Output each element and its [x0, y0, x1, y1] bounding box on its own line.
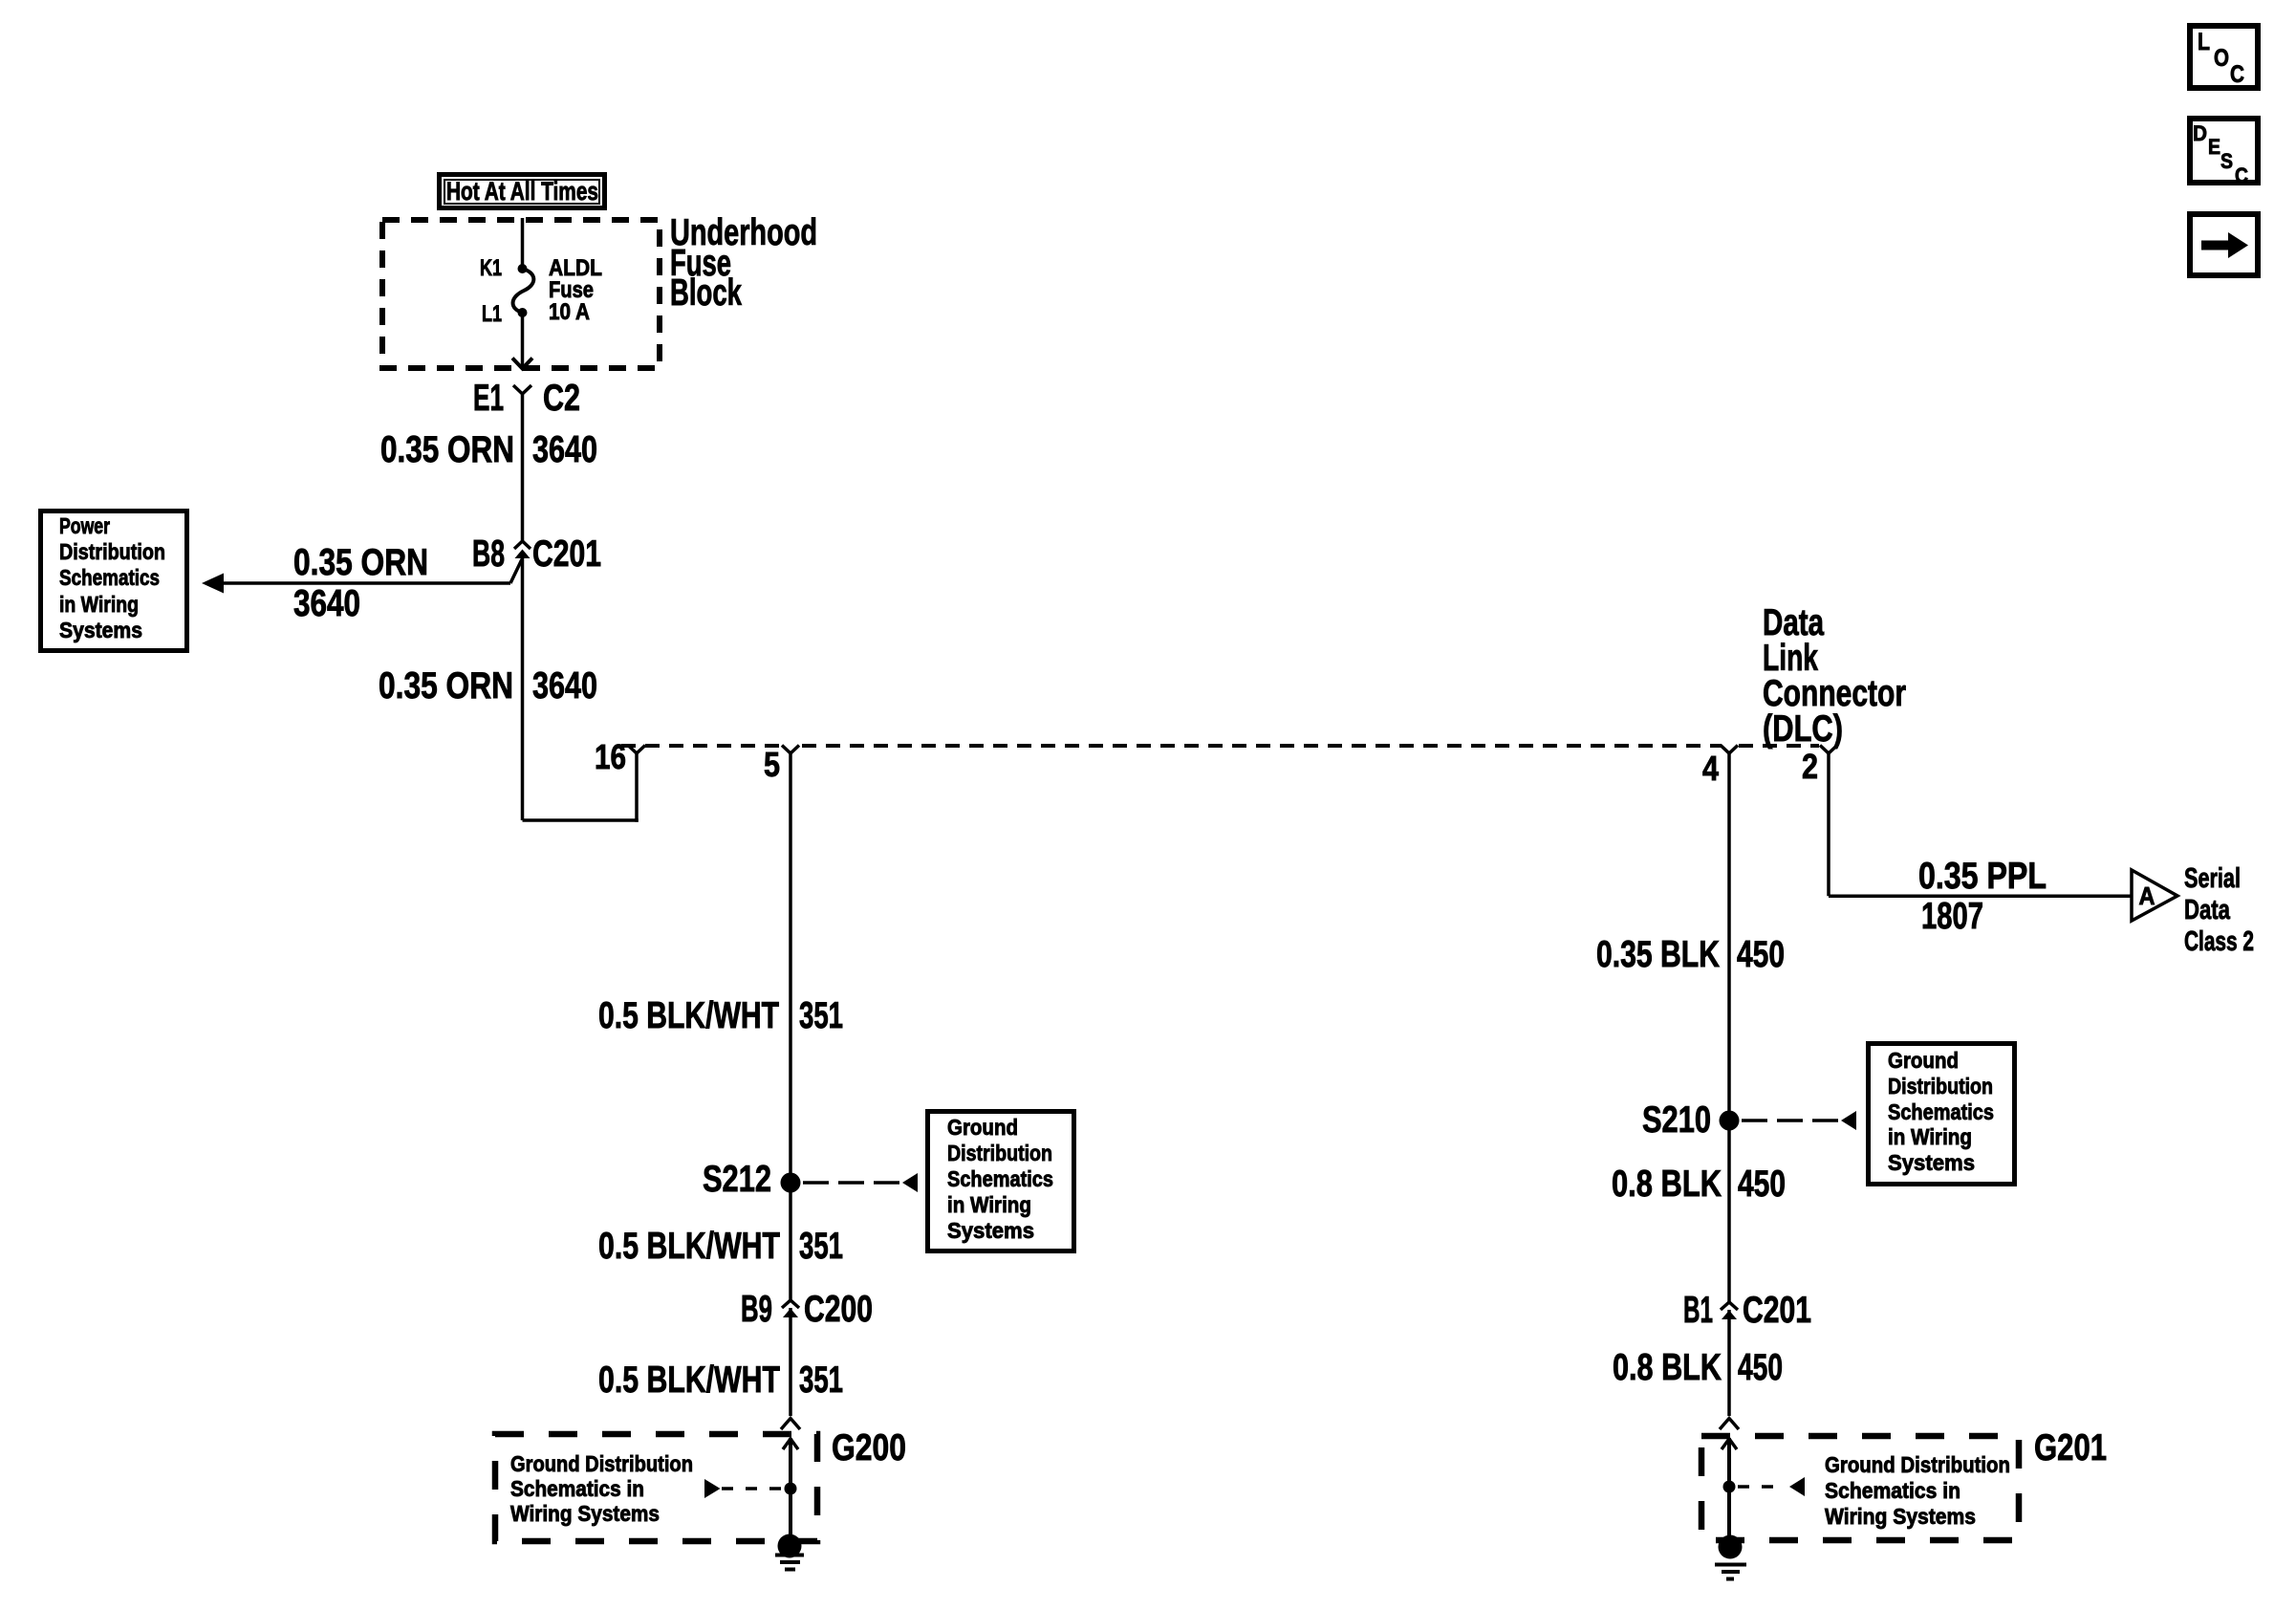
- wire fuse output with down arrow: [512, 313, 532, 369]
- svg-text:Ground: Ground: [1888, 1048, 1959, 1073]
- svg-text:C: C: [2235, 163, 2248, 187]
- svg-text:450: 450: [1738, 1347, 1783, 1388]
- svg-text:Ground Distribution: Ground Distribution: [510, 1451, 693, 1476]
- G200 reference arrow: [704, 1479, 784, 1498]
- label 0.8 BLK 450 upper: [1612, 1164, 1786, 1205]
- svg-text:0.5 BLK/WHT: 0.5 BLK/WHT: [598, 995, 779, 1036]
- svg-text:Systems: Systems: [947, 1218, 1034, 1243]
- svg-text:351: 351: [799, 995, 843, 1036]
- connector fork at G200: [781, 1419, 800, 1430]
- svg-text:S212: S212: [703, 1159, 771, 1200]
- svg-text:0.8 BLK: 0.8 BLK: [1613, 1347, 1722, 1388]
- G201 junction node: [1723, 1481, 1736, 1493]
- svg-text:in Wiring: in Wiring: [1888, 1124, 1972, 1149]
- svg-text:S: S: [2220, 149, 2233, 173]
- svg-text:0.35 BLK: 0.35 BLK: [1596, 934, 1720, 975]
- G200 box text: [510, 1451, 693, 1526]
- label Hot At All Times: [440, 175, 605, 208]
- svg-text:Ground: Ground: [947, 1115, 1018, 1140]
- svg-text:0.35 PPL: 0.35 PPL: [1918, 856, 2047, 897]
- svg-text:0.35 ORN: 0.35 ORN: [380, 429, 514, 470]
- connector B8/C201: [472, 533, 601, 575]
- wire 0.35 ORN 3640 lower: [379, 558, 597, 820]
- G201 box text: [1825, 1452, 2010, 1529]
- svg-text:K1: K1: [480, 255, 502, 281]
- label 0.5 BLK/WHT 351 lower: [598, 1360, 843, 1401]
- svg-text:0.5 BLK/WHT: 0.5 BLK/WHT: [598, 1226, 780, 1267]
- svg-text:351: 351: [799, 1226, 843, 1267]
- wire 0.35 ORN 3640 upper: [380, 394, 597, 541]
- label Data Link Connector (DLC): [1763, 602, 1906, 750]
- svg-text:G200: G200: [832, 1427, 906, 1469]
- svg-text:0.5 BLK/WHT: 0.5 BLK/WHT: [598, 1360, 780, 1401]
- label Underhood Fuse Block: [670, 212, 817, 314]
- label 0.5 BLK/WHT 351 middle: [598, 1226, 843, 1267]
- svg-text:E1: E1: [473, 378, 504, 419]
- svg-text:G201: G201: [2034, 1427, 2107, 1469]
- svg-text:C201: C201: [532, 533, 601, 575]
- node K1: [518, 264, 528, 273]
- svg-text:Ground Distribution: Ground Distribution: [1825, 1452, 2010, 1477]
- svg-text:5: 5: [764, 745, 780, 784]
- svg-text:Distribution: Distribution: [59, 539, 165, 564]
- svg-text:Hot At All Times: Hot At All Times: [446, 177, 598, 206]
- svg-text:Distribution: Distribution: [1888, 1074, 1993, 1099]
- connector B9/C200: [741, 1289, 873, 1330]
- svg-text:16: 16: [595, 737, 626, 776]
- svg-text:2: 2: [1802, 747, 1818, 786]
- G201 ground wire with up arrow: [1722, 1438, 1737, 1547]
- svg-text:0.35 ORN: 0.35 ORN: [293, 542, 428, 583]
- wire down to G201: [1727, 1310, 1731, 1416]
- icon DESC: [2190, 119, 2258, 187]
- svg-text:Schematics in: Schematics in: [1825, 1478, 1960, 1503]
- fuse ALDL 10 A: [513, 255, 602, 325]
- svg-text:Schematics: Schematics: [1888, 1099, 1994, 1124]
- svg-text:1807: 1807: [1921, 896, 1983, 937]
- wire 0.35 ORN 3640 to power distribution: [202, 542, 522, 624]
- icon LOC: [2190, 26, 2258, 88]
- svg-text:B8: B8: [472, 533, 505, 575]
- underhood fuse block dashed box: [382, 220, 660, 368]
- svg-text:C2: C2: [543, 378, 580, 419]
- svg-text:B1: B1: [1683, 1290, 1713, 1331]
- ground G201 dashed box: [1701, 1436, 2019, 1540]
- ground G200 dashed box: [495, 1434, 817, 1541]
- G200 ground wire with up arrow: [783, 1438, 798, 1546]
- svg-text:3640: 3640: [532, 665, 597, 707]
- reference S210 to ground distribution: [1742, 1111, 1856, 1130]
- svg-text:Wiring Systems: Wiring Systems: [510, 1501, 660, 1526]
- svg-text:Systems: Systems: [1888, 1150, 1975, 1175]
- pin 4: [1702, 746, 1738, 789]
- off-page connector A: [2132, 870, 2177, 921]
- svg-text:450: 450: [1737, 934, 1785, 975]
- svg-text:Schematics in: Schematics in: [510, 1476, 644, 1501]
- svg-text:0.35 ORN: 0.35 ORN: [379, 665, 513, 707]
- label 0.8 BLK 450 lower: [1613, 1347, 1783, 1388]
- svg-text:Data: Data: [2184, 895, 2231, 925]
- svg-text:C201: C201: [1743, 1290, 1811, 1331]
- power distribution reference box: [41, 511, 187, 651]
- ground distribution reference box at S212: [928, 1112, 1074, 1251]
- svg-text:Power: Power: [59, 513, 110, 538]
- connector fork at G201: [1720, 1419, 1739, 1430]
- svg-text:Wiring Systems: Wiring Systems: [1825, 1504, 1976, 1529]
- svg-text:S210: S210: [1642, 1099, 1711, 1141]
- icon forward arrow: [2190, 214, 2258, 275]
- svg-text:in Wiring: in Wiring: [947, 1192, 1031, 1217]
- pin 5: [764, 745, 799, 784]
- svg-text:4: 4: [1702, 749, 1719, 788]
- ground symbol G200: [775, 1534, 804, 1570]
- svg-text:A: A: [2139, 881, 2155, 910]
- svg-text:0.8 BLK: 0.8 BLK: [1612, 1164, 1722, 1205]
- splice S210: [1642, 1099, 1740, 1141]
- G201 reference arrow: [1738, 1477, 1805, 1496]
- label Serial Data Class 2: [2184, 863, 2254, 957]
- connector B1/C201: [1683, 1290, 1811, 1331]
- svg-text:Systems: Systems: [59, 618, 142, 642]
- svg-text:10 A: 10 A: [549, 299, 590, 325]
- reference S212 to ground distribution: [803, 1173, 918, 1192]
- pin 2: [1802, 746, 1837, 787]
- wire down to G200: [789, 1308, 792, 1416]
- ground distribution reference box at S210: [1869, 1044, 2015, 1185]
- svg-text:B9: B9: [741, 1289, 772, 1330]
- svg-text:D: D: [2193, 121, 2207, 145]
- G200 junction node: [785, 1483, 797, 1495]
- svg-text:Distribution: Distribution: [947, 1141, 1052, 1165]
- svg-text:Schematics: Schematics: [947, 1166, 1053, 1191]
- svg-text:C200: C200: [804, 1289, 873, 1330]
- svg-text:in Wiring: in Wiring: [59, 592, 139, 617]
- svg-text:351: 351: [799, 1360, 843, 1401]
- svg-text:Schematics: Schematics: [59, 565, 160, 590]
- svg-text:C: C: [2230, 61, 2244, 88]
- splice S212: [703, 1159, 801, 1200]
- wire 0.35 BLK 450: [1596, 753, 1785, 1302]
- svg-text:450: 450: [1738, 1164, 1786, 1205]
- svg-text:3640: 3640: [293, 583, 360, 624]
- svg-text:L: L: [2198, 29, 2210, 55]
- svg-text:L1: L1: [482, 301, 502, 327]
- wire serial data 0.35 PPL 1807: [1829, 753, 2132, 937]
- DLC connector dashed line: [621, 744, 1819, 748]
- wire hot feed into fuse: [521, 218, 525, 269]
- node L1: [518, 308, 528, 317]
- ground symbol G201: [1715, 1535, 1746, 1579]
- wire jog to pin 16: [523, 752, 639, 822]
- svg-text:Serial: Serial: [2184, 863, 2241, 894]
- svg-text:3640: 3640: [532, 429, 597, 470]
- pin 16: [595, 737, 645, 776]
- svg-text:O: O: [2214, 45, 2229, 72]
- connector E1/C2 fork: [473, 378, 580, 419]
- svg-text:Class 2: Class 2: [2184, 926, 2254, 957]
- svg-text:E: E: [2208, 135, 2220, 159]
- svg-text:Block: Block: [670, 272, 742, 314]
- svg-text:(DLC): (DLC): [1763, 708, 1843, 750]
- wire 0.5 BLK/WHT 351 upper: [598, 753, 843, 1300]
